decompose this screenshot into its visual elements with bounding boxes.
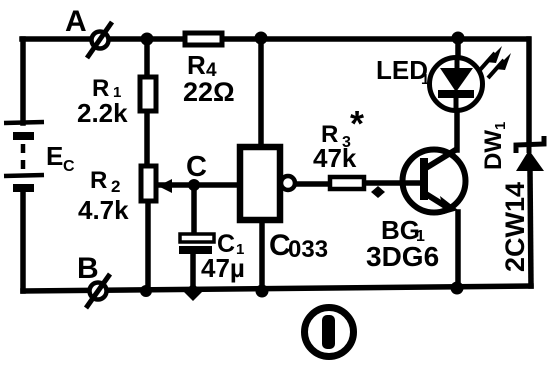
svg-text:E: E [46,141,63,171]
svg-text:2: 2 [111,177,120,196]
svg-text:*: * [350,103,364,144]
svg-text:1: 1 [421,71,429,88]
svg-text:C: C [186,151,207,183]
svg-text:C: C [63,158,75,175]
svg-text:1: 1 [492,122,509,130]
svg-text:R: R [90,167,107,194]
svg-text:DW: DW [480,130,507,170]
svg-text:47k: 47k [313,143,357,173]
svg-text:22Ω: 22Ω [183,77,235,107]
svg-text:2.2k: 2.2k [77,98,128,128]
svg-text:B: B [77,252,99,285]
svg-text:3DG6: 3DG6 [366,241,439,272]
svg-text:47µ: 47µ [201,253,245,283]
svg-text:R: R [187,50,206,80]
svg-text:A: A [65,5,87,38]
svg-text:4.7k: 4.7k [78,195,129,225]
svg-text:2CW14: 2CW14 [500,182,530,272]
svg-text:033: 033 [288,236,328,263]
